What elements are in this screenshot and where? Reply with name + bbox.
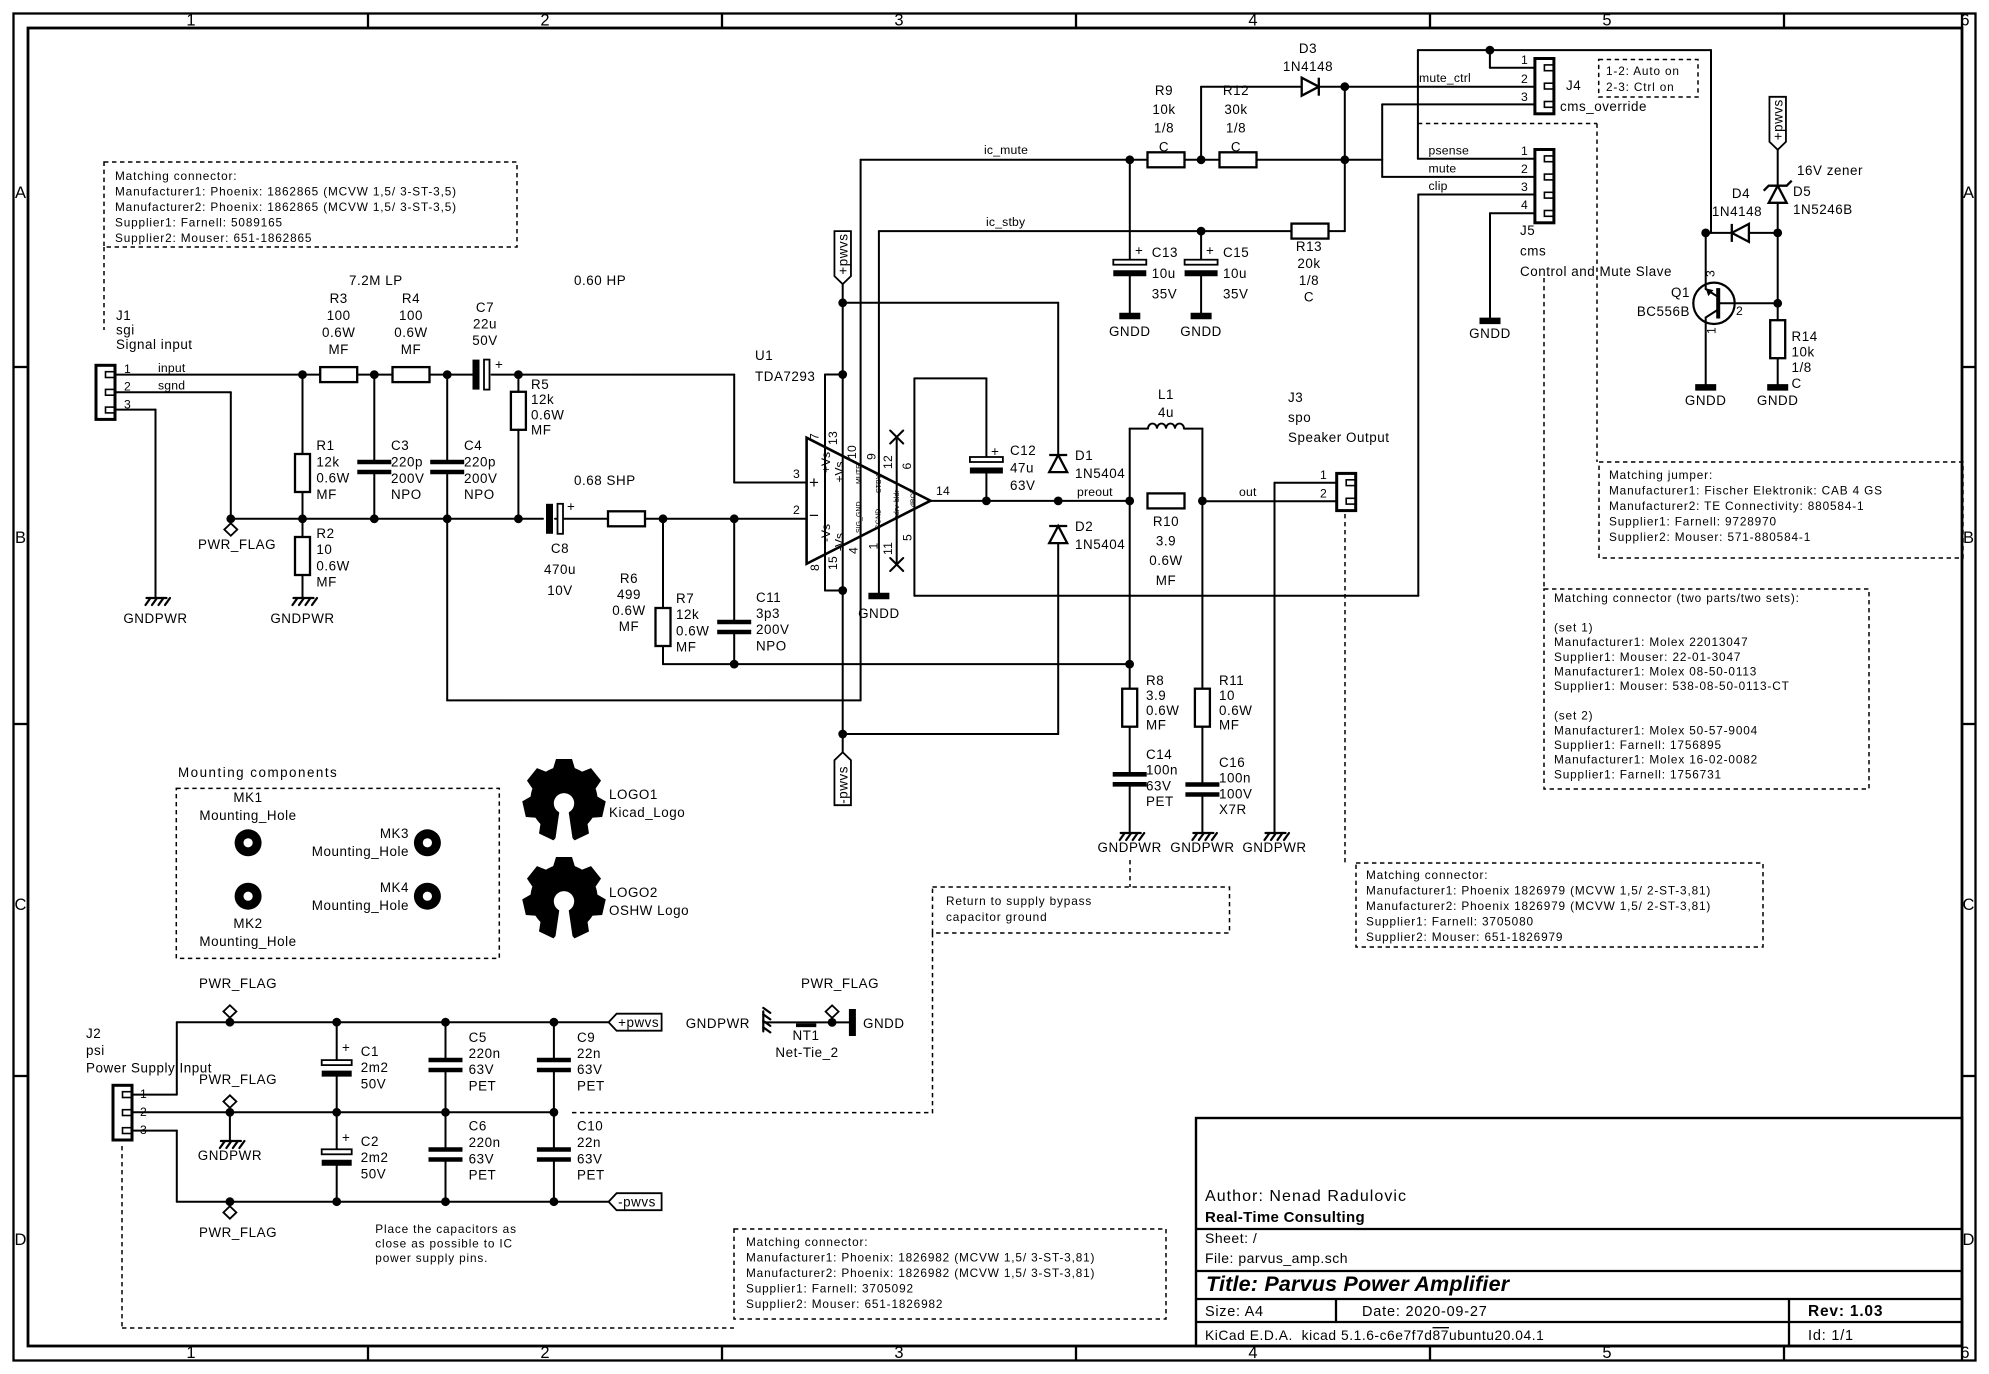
svg-text:10V: 10V [547,583,572,598]
U1 pin 10 line (MUTE) [860,160,862,701]
svg-text:L1: L1 [1158,387,1174,402]
svg-text:1: 1 [186,1344,195,1362]
svg-text:+: + [991,444,999,459]
wire: D3/R13 riser [1344,87,1346,231]
power port +pwvs (Q1) [1769,97,1786,150]
svg-text:sgnd: sgnd [158,379,185,393]
svg-text:0.6W: 0.6W [322,325,355,340]
svg-text:3: 3 [894,1344,903,1362]
connector J3 spo Speaker Output [1337,473,1356,510]
resistor R12 [1220,152,1257,167]
svg-text:MF: MF [328,342,348,357]
svg-text:GNDPWR: GNDPWR [1170,840,1234,855]
svg-text:Supplier1: Farnell: 1756895: Supplier1: Farnell: 1756895 [1554,738,1722,752]
svg-text:-Vs: -Vs [833,533,847,551]
svg-text:GNDD: GNDD [1757,393,1799,408]
ground GNDPWR (R2) [293,598,298,605]
svg-text:MF: MF [1156,573,1176,588]
dashed leader J4 to jumper note [1418,123,1597,125]
resistor R3 [320,367,357,382]
ground GNDD (U1 pin1) [868,593,889,600]
svg-text:1/8: 1/8 [1792,360,1812,375]
svg-text:+pwvs: +pwvs [836,234,851,275]
svg-text:Manufacturer2: Phoenix: 182698: Manufacturer2: Phoenix: 1826982 (MCVW 1,… [746,1266,1095,1280]
wire: out to J3 [1202,500,1336,502]
note box: mounting components [176,788,499,958]
svg-text:GNDD: GNDD [858,606,900,621]
wire: second rail [231,518,543,520]
svg-text:C10: C10 [577,1119,603,1134]
svg-text:R4: R4 [402,291,420,306]
svg-text:C12: C12 [1010,443,1036,458]
net port +pwvs (PSU) [609,1014,662,1031]
svg-text:2-3: Ctrl on: 2-3: Ctrl on [1606,80,1675,94]
svg-text:10u: 10u [1152,266,1176,281]
capacitor C5 [445,1022,447,1059]
svg-text:10: 10 [1219,688,1235,703]
svg-text:File: parvus_amp.sch: File: parvus_amp.sch [1205,1250,1348,1266]
svg-text:TDA7293: TDA7293 [755,369,815,384]
ground GNDD (C13) [1119,313,1140,320]
wire: gnd rail [132,1111,554,1113]
svg-text:Place the capacitors as: Place the capacitors as [375,1222,517,1236]
power flag (gnd) [229,1108,231,1113]
svg-text:1-2: Auto on: 1-2: Auto on [1606,64,1680,78]
svg-text:NPO: NPO [756,638,787,653]
svg-text:3.9: 3.9 [1146,688,1166,703]
svg-text:15: 15 [826,556,840,570]
svg-text:+: + [567,499,575,514]
svg-text:PET: PET [1146,794,1174,809]
svg-text:Supplier2: Mouser: 651-1826982: Supplier2: Mouser: 651-1826982 [746,1297,943,1311]
U1 pin 5 line (CLIP) [807,438,931,564]
U1 pin 9 line (STBY) [878,231,880,593]
svg-text:PWR_FLAG: PWR_FLAG [199,1225,277,1240]
capacitor C15 [1200,231,1202,260]
resistor R6 [608,511,645,526]
svg-text:+pwvs: +pwvs [1771,99,1786,140]
svg-text:Supplier1: Farnell: 3705080: Supplier1: Farnell: 3705080 [1366,915,1534,929]
svg-text:GNDD: GNDD [1469,326,1511,341]
capacitor C13 [1129,160,1131,260]
svg-text:Manufacturer1: Phoenix: 186286: Manufacturer1: Phoenix: 1862865 (MCVW 1,… [115,185,457,199]
capacitor C12 [970,457,1003,462]
mounting hole MK1 [235,829,262,856]
junction dots second rail [226,514,235,523]
svg-text:2: 2 [1320,487,1327,501]
wire: input to U1 pin3 [733,375,735,483]
note box: J1 matching connector [104,162,517,247]
svg-text:close as possible to IC: close as possible to IC [375,1237,513,1251]
svg-text:D2: D2 [1075,519,1093,534]
capacitor C6 [445,1112,447,1149]
svg-text:Supplier1: Farnell: 1756731: Supplier1: Farnell: 1756731 [1554,767,1722,781]
svg-text:STBY: STBY [876,474,883,493]
svg-text:MUTE: MUTE [856,464,863,484]
svg-text:Title: Parvus Power Amplifier: Title: Parvus Power Amplifier [1206,1272,1511,1296]
capacitor C3 [357,460,391,465]
svg-text:GNDPWR: GNDPWR [198,1148,262,1163]
svg-text:100: 100 [399,308,423,323]
svg-text:Id: 1/1: Id: 1/1 [1808,1328,1854,1344]
svg-text:MK3: MK3 [380,826,409,841]
svg-text:13: 13 [826,431,840,445]
svg-text:1N4148: 1N4148 [1283,59,1333,74]
svg-text:C2: C2 [361,1134,379,1149]
svg-text:1/8: 1/8 [1226,121,1246,136]
svg-text:C5: C5 [469,1030,487,1045]
svg-text:2m2: 2m2 [361,1150,389,1165]
svg-text:+pwvs: +pwvs [618,1015,659,1030]
svg-text:1/8: 1/8 [1154,121,1174,136]
svg-text:J4: J4 [1566,78,1581,93]
note box: J5 matching connector two sets [1544,589,1869,789]
svg-text:PWR_FLAG: PWR_FLAG [199,976,277,991]
U1 pin 7 line [824,375,826,591]
mounting hole MK2 [235,883,262,910]
wire: J1.1 input rail [115,374,476,376]
connector J5 cms [1535,150,1554,223]
svg-text:PET: PET [577,1078,605,1093]
resistor R7 [656,608,671,646]
svg-text:0.6W: 0.6W [676,623,709,638]
svg-text:bldr: bldr [894,490,901,502]
svg-text:Control and Mute Slave: Control and Mute Slave [1520,264,1672,279]
svg-text:cms_override: cms_override [1560,99,1647,114]
svg-text:out: out [1239,485,1257,499]
svg-text:sgi: sgi [116,323,135,338]
svg-text:D: D [15,1231,27,1249]
mounting hole MK3 [414,829,441,856]
svg-text:GNDD: GNDD [1109,324,1151,339]
svg-text:Manufacturer2: TE Connectivity: Manufacturer2: TE Connectivity: 880584-1 [1609,499,1864,513]
svg-text:1N4148: 1N4148 [1712,204,1762,219]
svg-text:MK4: MK4 [380,880,409,895]
svg-text:12k: 12k [316,454,339,469]
svg-text:10k: 10k [1152,102,1175,117]
svg-text:Supplier1: Mouser: 22-01-3047: Supplier1: Mouser: 22-01-3047 [1554,650,1741,664]
capacitor C7 [473,360,480,390]
svg-text:20k: 20k [1297,256,1320,271]
note box: matching jumper (J4) [1599,462,1963,558]
svg-text:X7R: X7R [1219,802,1247,817]
Q1 base wire [1718,302,1778,304]
svg-text:Mounting_Hole: Mounting_Hole [312,898,409,913]
wire: mute_ctrl loop J4.1 [1418,49,1711,51]
Q1 collector [1706,310,1719,318]
svg-text:spo: spo [1288,410,1311,425]
svg-text:C13: C13 [1152,245,1178,260]
svg-text:mute: mute [1429,162,1457,176]
svg-text:0.68 SHP: 0.68 SHP [574,473,636,488]
svg-text:capacitor ground: capacitor ground [946,910,1047,924]
svg-text:PET: PET [577,1168,605,1183]
svg-text:GNDD: GNDD [1180,324,1222,339]
svg-text:Power Supply Input: Power Supply Input [86,1060,212,1075]
svg-text:7: 7 [808,433,822,440]
wire: D3 to J4.2 mute_ctrl [1319,86,1535,88]
svg-text:LOGO2: LOGO2 [609,885,658,900]
dashed leader from J1 note box [103,247,105,330]
svg-text:16V zener: 16V zener [1797,163,1863,178]
svg-text:MF: MF [316,575,336,590]
svg-text:100n: 100n [1146,763,1178,778]
svg-text:Manufacturer1: Molex 08-50-011: Manufacturer1: Molex 08-50-0113 [1554,665,1757,679]
title block [1196,1118,1962,1346]
svg-text:PWR_FLAG: PWR_FLAG [199,1072,277,1087]
resistor R14 [1770,320,1785,358]
svg-text:C4: C4 [464,438,482,453]
svg-text:4: 4 [847,547,861,554]
ground GNDPWR (NT1) [763,1008,770,1033]
svg-text:MK1: MK1 [233,790,262,805]
svg-text:MF: MF [316,487,336,502]
svg-text:ic_mute: ic_mute [984,143,1028,157]
svg-text:R5: R5 [531,377,549,392]
svg-text:R3: R3 [330,291,348,306]
wire: J2.3 to -rail [132,1130,177,1132]
svg-text:R12: R12 [1223,83,1249,98]
svg-text:0.6W: 0.6W [531,407,564,422]
svg-text:C11: C11 [756,590,781,605]
svg-text:C1: C1 [361,1044,379,1059]
svg-text:R2: R2 [316,526,334,541]
svg-text:1: 1 [1521,53,1528,67]
wire: ic_mute line [861,159,1148,161]
svg-text:SIG_GND: SIG_GND [856,501,863,533]
svg-text:Matching connector:: Matching connector: [746,1235,868,1249]
svg-text:MF: MF [676,640,696,655]
svg-text:10k: 10k [1792,345,1815,360]
svg-text:35V: 35V [1223,287,1248,302]
svg-text:PET: PET [469,1078,497,1093]
svg-text:Rev: 1.03: Rev: 1.03 [1808,1303,1883,1320]
svg-text:2: 2 [1521,72,1528,86]
svg-text:R8: R8 [1146,673,1164,688]
svg-text:+: + [342,1130,350,1145]
svg-text:R9: R9 [1155,83,1173,98]
wire: ic_stby line [879,230,1292,232]
svg-text:2: 2 [1521,162,1528,176]
svg-text:MF: MF [401,342,421,357]
svg-text:1/8: 1/8 [1299,273,1319,288]
svg-text:Mounting_Hole: Mounting_Hole [199,934,296,949]
wire: C7 to R5 node and onward [492,374,735,376]
svg-text:Manufacturer2: Phoenix: 186286: Manufacturer2: Phoenix: 1862865 (MCVW 1,… [115,200,457,214]
svg-text:R13: R13 [1296,239,1322,254]
svg-text:2: 2 [540,1344,549,1362]
svg-text:Size: A4: Size: A4 [1205,1304,1264,1320]
wire: clip to J5.3 [1418,194,1535,196]
wire: -Vs branch to D2 [843,733,1058,735]
svg-text:3p3: 3p3 [756,606,780,621]
svg-text:0.6W: 0.6W [316,471,349,486]
svg-text:D: D [1963,1231,1975,1249]
svg-text:50V: 50V [361,1076,386,1091]
wire: J1.2 sgnd [115,391,231,393]
ground GNDD (Q1) [1695,384,1716,391]
svg-text:Manufacturer1: Phoenix 1826979: Manufacturer1: Phoenix 1826979 (MCVW 1,5… [1366,884,1711,898]
svg-text:GNDPWR: GNDPWR [270,611,334,626]
note box: return to supply bypass [933,887,1230,933]
svg-text:2: 2 [540,12,549,30]
svg-text:-pwvs: -pwvs [618,1195,656,1210]
svg-text:MF: MF [1146,718,1166,733]
svg-text:-pwvs: -pwvs [836,766,851,804]
svg-text:SGND: SGND [876,509,883,529]
wire: + rail [177,1021,609,1023]
svg-text:OSHW Logo: OSHW Logo [609,903,689,918]
resistor R11 [1195,689,1210,727]
svg-text:Supplier2: Mouser: 571-880584-: Supplier2: Mouser: 571-880584-1 [1609,530,1811,544]
svg-text:Supplier1: Farnell: 3705092: Supplier1: Farnell: 3705092 [746,1282,914,1296]
svg-text:Matching connector (two parts/: Matching connector (two parts/two sets): [1554,591,1800,605]
resistor R10 [1148,493,1185,508]
wire: D5 to D4 node [1777,203,1779,303]
ground GNDPWR (J1) [146,598,151,605]
wire: - rail [177,1201,609,1203]
power flag (+ rail) [229,1018,231,1023]
svg-text:220p: 220p [464,454,496,469]
svg-text:1N5404: 1N5404 [1075,537,1125,552]
svg-text:50V: 50V [361,1166,386,1181]
U1 pin 13 / +pwvs line [842,284,844,752]
svg-text:−: − [809,506,819,525]
svg-text:C: C [1963,896,1975,914]
svg-text:+: + [1135,243,1143,258]
note box: J2 matching connector [734,1229,1166,1319]
ground GNDPWR (C14) [1120,833,1125,840]
diode D2 1N5404 [1049,525,1067,527]
svg-text:Supplier1: Farnell: 9728970: Supplier1: Farnell: 9728970 [1609,515,1777,529]
svg-text:Supplier1: Farnell: 5089165: Supplier1: Farnell: 5089165 [115,216,283,230]
svg-text:0.60 HP: 0.60 HP [574,273,626,288]
svg-text:10u: 10u [1223,266,1247,281]
svg-text:preout: preout [1077,485,1113,499]
capacitor C9 [553,1022,555,1059]
svg-text:0.6W: 0.6W [612,603,645,618]
dashed leader return-note to GNDPWR [932,933,934,1114]
svg-text:2: 2 [793,503,800,517]
svg-text:63V: 63V [469,1151,494,1166]
svg-text:C: C [1231,139,1241,154]
svg-text:63V: 63V [1010,478,1035,493]
connector J1 sgi Signal input [96,365,115,419]
wire: out down to R11 [1201,501,1203,690]
svg-text:PET: PET [469,1168,497,1183]
junction dots PSU rails [332,1018,341,1027]
svg-text:Date: 2020-09-27: Date: 2020-09-27 [1362,1304,1488,1320]
svg-text:MK2: MK2 [233,916,262,931]
svg-text:1: 1 [867,543,881,550]
svg-text:Signal input: Signal input [116,337,193,352]
svg-text:+Vs: +Vs [833,461,847,482]
svg-text:J5: J5 [1520,223,1535,238]
svg-text:Real-Time Consulting: Real-Time Consulting [1205,1209,1365,1226]
svg-text:R14: R14 [1792,329,1818,344]
svg-text:D1: D1 [1075,448,1093,463]
wire: +pwvs to D1 [843,302,1058,304]
svg-text:9: 9 [865,453,879,460]
wire: loop down to D4 [1710,50,1712,233]
svg-text:R6: R6 [620,571,638,586]
wire: clip line pin5 [914,595,1418,597]
svg-text:5: 5 [1602,12,1611,30]
svg-text:499: 499 [617,587,641,602]
svg-text:4: 4 [1521,198,1528,212]
svg-text:2: 2 [1736,304,1743,318]
svg-text:C: C [1304,290,1314,305]
svg-text:C15: C15 [1223,245,1249,260]
svg-text:220n: 220n [469,1046,501,1061]
note box: J3 matching connector [1356,863,1763,947]
svg-text:C: C [1792,376,1802,391]
svg-text:GNDPWR: GNDPWR [123,611,187,626]
resistor R4 [393,367,430,382]
dashed leader J3 to note [1344,514,1346,863]
svg-text:Net-Tie_2: Net-Tie_2 [775,1045,838,1060]
svg-text:psense: psense [1429,144,1470,158]
svg-text:MF: MF [619,619,639,634]
U1 pins 7/13 tie [825,374,843,376]
svg-text:MF: MF [531,423,551,438]
svg-text:C6: C6 [469,1119,487,1134]
svg-text:Manufacturer1: Molex 16-02-008: Manufacturer1: Molex 16-02-0082 [1554,753,1758,767]
resistor R9 [1148,152,1185,167]
svg-text:B: B [15,529,26,547]
svg-text:ic_stby: ic_stby [986,215,1026,229]
svg-text:1: 1 [1320,468,1327,482]
wire: mute to J5.2 [1382,176,1535,178]
svg-text:Matching connector:: Matching connector: [115,169,237,183]
wire: SIG_GND return [446,519,448,701]
wire: preout down to feedback/R8 [1129,501,1131,690]
svg-text:NPO: NPO [464,487,495,502]
svg-text:Speaker Output: Speaker Output [1288,430,1390,445]
wire: J4.3 to mute riser [1382,103,1535,105]
wire: bootstrap pin6 to C12 [914,377,986,379]
resistor R8 [1122,689,1137,727]
svg-text:47u: 47u [1010,461,1034,476]
svg-text:C: C [1159,139,1169,154]
svg-text:Supplier1: Mouser: 538-08-50-0: Supplier1: Mouser: 538-08-50-0113-CT [1554,679,1790,693]
svg-text:22u: 22u [473,317,497,332]
resistor R2 [295,537,310,575]
capacitor C1 [336,1022,338,1060]
svg-text:input: input [158,361,186,375]
svg-text:Q1: Q1 [1671,285,1690,300]
svg-text:2m2: 2m2 [361,1060,389,1075]
svg-text:63V: 63V [469,1062,494,1077]
svg-text:12k: 12k [676,607,699,622]
svg-text:Manufacturer1: Molex 50-57-900: Manufacturer1: Molex 50-57-9004 [1554,723,1758,737]
wire: J1.3 to GNDPWR [115,409,156,411]
svg-text:50V: 50V [472,333,497,348]
svg-text:1N5404: 1N5404 [1075,466,1125,481]
svg-text:(set 2): (set 2) [1554,709,1593,723]
svg-text:J3: J3 [1288,390,1303,405]
capacitor C8 [546,504,553,534]
wire: J3 pin1 return [1275,482,1337,484]
capacitor C4 [430,460,464,465]
svg-text:22n: 22n [577,1135,601,1150]
svg-text:R1: R1 [316,438,334,453]
svg-text:B: B [1963,529,1974,547]
svg-text:1: 1 [186,12,195,30]
svg-text:Mounting_Hole: Mounting_Hole [199,808,296,823]
svg-text:4: 4 [1248,12,1257,30]
svg-text:Supplier2: Mouser: 651-1826979: Supplier2: Mouser: 651-1826979 [1366,930,1563,944]
